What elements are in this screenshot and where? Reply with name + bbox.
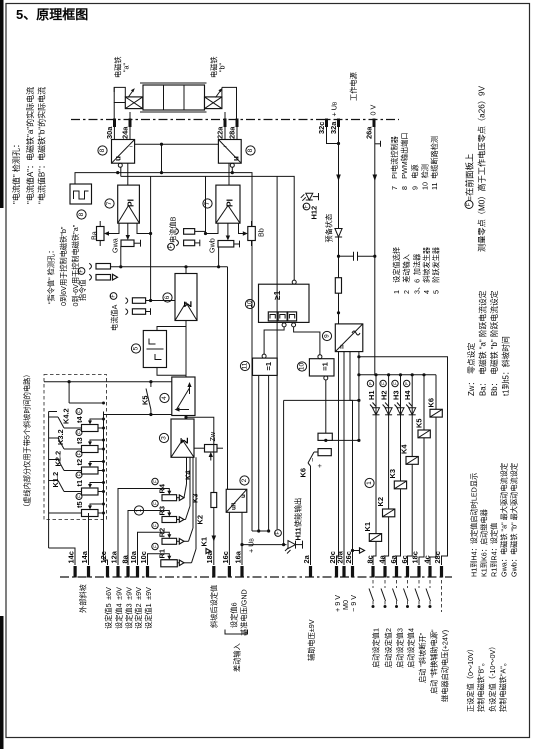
circled 7 right bbox=[203, 199, 212, 208]
external contact 4a bbox=[384, 580, 386, 588]
u/i outputs to 16c 16a bbox=[228, 512, 230, 565]
terminal 12a bbox=[116, 566, 119, 578]
valve chamber divider 2 bbox=[183, 85, 185, 110]
H11 feed wire bbox=[284, 399, 359, 401]
LED H1 column bbox=[373, 375, 376, 565]
svg-text:32a: 32a bbox=[329, 121, 338, 134]
svg-text:28c: 28c bbox=[433, 551, 442, 563]
svg-text:26a: 26a bbox=[365, 126, 374, 139]
wire box a to PI a bbox=[127, 163, 129, 185]
svg-text:11 电缆断路检测: 11 电缆断路检测 bbox=[430, 136, 439, 190]
svg-text:Zw： 零点设定: Zw： 零点设定 bbox=[466, 343, 476, 396]
relay K4 bbox=[406, 457, 418, 465]
trunk wire right column bbox=[276, 176, 278, 529]
svg-text:外部斜坡: 外部斜坡 bbox=[79, 584, 88, 613]
test point below box a bbox=[118, 163, 122, 167]
svg-text:指令值: 指令值 bbox=[78, 279, 87, 301]
switch K5 bypass bbox=[150, 382, 152, 387]
right feed from 9 bbox=[358, 352, 360, 375]
svg-text:H4: H4 bbox=[403, 390, 412, 400]
terminal 20c bbox=[335, 566, 338, 578]
svg-text:K6: K6 bbox=[299, 468, 308, 477]
terminal 28c bbox=[440, 566, 443, 578]
svg-text:22a: 22a bbox=[215, 126, 224, 139]
summing bus from switches to adder 3 bbox=[186, 457, 188, 484]
svg-text:10a: 10a bbox=[129, 550, 138, 563]
Gwb wiper arrow from PI b bbox=[227, 223, 229, 238]
svg-text:2a: 2a bbox=[302, 554, 311, 563]
svg-text:K2: K2 bbox=[196, 515, 205, 524]
wire solenoid b outer loop to 28a bbox=[222, 87, 237, 119]
svg-text:PI: PI bbox=[225, 199, 235, 207]
terminal 6c bbox=[406, 566, 409, 578]
potentiometer Gwb bbox=[218, 241, 234, 248]
relay K5 column bbox=[423, 375, 425, 430]
svg-text:K5: K5 bbox=[141, 396, 150, 405]
terminal 14c bbox=[74, 566, 77, 578]
xor box 10b bbox=[309, 359, 334, 376]
svg-text:14c: 14c bbox=[67, 551, 76, 563]
wire test point b to rail1 bbox=[231, 167, 233, 172]
jack A resistor 2 bbox=[132, 309, 145, 315]
svg-text:Bb: Bb bbox=[257, 228, 266, 237]
svg-text:启动设定值3: 启动设定值3 bbox=[396, 628, 405, 668]
svg-text:Σ: Σ bbox=[179, 437, 191, 444]
terminal 10c bbox=[146, 566, 149, 578]
switch K6 to 2a bbox=[314, 451, 318, 453]
terminal 20a bbox=[342, 566, 345, 578]
svg-text:0 V: 0 V bbox=[369, 105, 378, 116]
valve top rail line bbox=[140, 82, 207, 84]
relay K6 column bbox=[435, 375, 437, 410]
jack resistor B2 bbox=[184, 240, 195, 246]
svg-text:7: 7 bbox=[106, 201, 113, 205]
svg-text:1 设定值选择: 1 设定值选择 bbox=[392, 247, 401, 294]
svg-text:K1: K1 bbox=[200, 537, 209, 546]
switch K2.2 bbox=[64, 470, 82, 472]
terminal 14a bbox=[87, 566, 90, 578]
svg-text:启动 "斜坡断开": 启动 "斜坡断开" bbox=[418, 632, 427, 683]
svg-text:24a: 24a bbox=[120, 126, 129, 139]
wire PI-a right output bbox=[137, 223, 151, 233]
svg-text:"b": "b" bbox=[218, 62, 227, 72]
svg-text:9 电源: 9 电源 bbox=[411, 164, 420, 190]
svg-text:Zw: Zw bbox=[208, 431, 217, 441]
square wave generator box (8) bbox=[70, 184, 92, 204]
terminal 28a bbox=[236, 119, 239, 128]
svg-text:u/i: u/i bbox=[231, 503, 238, 510]
switch K4.2 bbox=[64, 427, 82, 429]
external dashed line 28c bbox=[441, 580, 443, 612]
svg-text:14a: 14a bbox=[80, 550, 89, 563]
svg-text:− 9 V: − 9 V bbox=[349, 595, 358, 612]
svg-text:K2.2: K2.2 bbox=[54, 451, 63, 467]
front panel note bbox=[465, 201, 473, 209]
svg-text:H12: H12 bbox=[310, 206, 319, 220]
switch K1 bbox=[184, 562, 192, 564]
terminal 24a bbox=[129, 119, 132, 128]
card edge dash-dot line bottom bbox=[60, 576, 452, 578]
svg-text:继电器启动电压(+24V): 继电器启动电压(+24V) bbox=[441, 630, 450, 702]
svg-text:F: F bbox=[77, 473, 82, 476]
LED H4 column bbox=[408, 375, 413, 565]
svg-text:"电流值" 检测孔：: "电流值" 检测孔： bbox=[11, 140, 21, 204]
potentiometer t1 bbox=[82, 488, 99, 495]
external contact 8c bbox=[372, 580, 374, 588]
svg-text:8 PWM输出端口: 8 PWM输出端口 bbox=[400, 132, 409, 190]
svg-text:5: 5 bbox=[133, 346, 140, 350]
Gwa wiper arrow from PI a bbox=[127, 223, 129, 238]
svg-text:辅助电压±9V: 辅助电压±9V bbox=[307, 619, 316, 661]
svg-text:u: u bbox=[232, 156, 241, 161]
relay K2 bbox=[383, 509, 395, 517]
svg-text:4: 4 bbox=[161, 396, 168, 400]
wire 30a to box a bbox=[113, 127, 115, 140]
external contact 18c bbox=[418, 580, 420, 588]
svg-text:"电流值A"：电磁铁"a"的实际电流: "电流值A"：电磁铁"a"的实际电流 bbox=[25, 87, 35, 204]
jack A resistor 1 bbox=[132, 298, 145, 304]
ramp time lower wire bbox=[104, 414, 172, 416]
svg-text:工作电源: 工作电源 bbox=[349, 72, 358, 101]
left return bus bbox=[48, 412, 50, 549]
potentiometer Zw bbox=[205, 445, 218, 453]
circled 8 generator bbox=[77, 210, 86, 219]
wire bubble chain 10 to 11 bbox=[264, 327, 284, 354]
wire PI-b right output to Bb bbox=[239, 223, 242, 233]
svg-text:K4.2: K4.2 bbox=[62, 408, 71, 424]
svg-text:6c: 6c bbox=[400, 555, 409, 563]
svg-text:控制电磁铁"B"。: 控制电磁铁"B"。 bbox=[477, 659, 486, 712]
test point below box b bbox=[230, 163, 234, 167]
u/i converter 2 bbox=[226, 489, 247, 512]
wire 32c join 32a bbox=[327, 127, 339, 144]
svg-text:"a": "a" bbox=[122, 62, 131, 72]
svg-text:"指令值" 检测孔：: "指令值" 检测孔： bbox=[47, 247, 56, 304]
svg-text:测量零点（M0）高于工作电压零点（a26）9V: 测量零点（M0）高于工作电压零点（a26）9V bbox=[477, 85, 487, 252]
open arrow into K1 line bbox=[206, 549, 211, 554]
svg-text:设定值1 ±9V: 设定值1 ±9V bbox=[144, 587, 153, 629]
svg-text:H2: H2 bbox=[380, 391, 389, 400]
potentiometer t5 bbox=[82, 510, 99, 517]
svg-text:t5: t5 bbox=[75, 501, 84, 508]
svg-text:2: 2 bbox=[241, 478, 248, 482]
svg-text:设定值6: 设定值6 bbox=[230, 602, 239, 628]
svg-text:8: 8 bbox=[78, 212, 85, 216]
svg-text:u: u bbox=[240, 494, 247, 498]
svg-text:i: i bbox=[129, 146, 134, 147]
svg-text:t4: t4 bbox=[75, 416, 84, 423]
solenoid b box bbox=[205, 97, 222, 109]
svg-text:9: 9 bbox=[324, 334, 331, 338]
potentiometer Gwa bbox=[121, 240, 134, 247]
svg-text:差动输入: 差动输入 bbox=[233, 643, 242, 672]
solenoid a arrow bbox=[128, 90, 134, 98]
svg-text:26c: 26c bbox=[344, 551, 353, 563]
resistor on supply line bbox=[335, 278, 341, 294]
wire 22a to box b bbox=[224, 127, 226, 140]
capacitor bbox=[339, 255, 354, 257]
terminal 6a bbox=[395, 566, 398, 578]
xor box 11 bbox=[253, 358, 278, 375]
potentiometer t2 bbox=[82, 467, 99, 474]
terminal 22a bbox=[224, 119, 227, 128]
svg-text:3: 3 bbox=[161, 436, 168, 440]
terminal 18c bbox=[417, 566, 420, 578]
svg-text:8: 8 bbox=[99, 148, 106, 152]
wire bubble chain 10 to 10b bbox=[294, 327, 320, 355]
circled 7 left bbox=[105, 199, 114, 208]
ramp pot bus bbox=[103, 412, 105, 561]
output of 10b down bbox=[325, 380, 327, 440]
svg-text:F: F bbox=[77, 452, 82, 455]
terminal 4a bbox=[383, 566, 386, 578]
setpoint pot R1 bbox=[162, 560, 177, 567]
trunk corner to aux rail bbox=[252, 530, 269, 532]
svg-text:6a: 6a bbox=[389, 554, 398, 563]
dashed enclosure for ramp time circuit bbox=[44, 375, 107, 520]
wire from ramp input into box bbox=[68, 382, 70, 403]
svg-text:F: F bbox=[77, 431, 82, 434]
svg-text:基准电压/GND: 基准电压/GND bbox=[240, 589, 249, 636]
svg-text:启动设定值4: 启动设定值4 bbox=[407, 628, 416, 668]
svg-text:Ba： 电磁铁 "a" 阶跃电流设定: Ba： 电磁铁 "a" 阶跃电流设定 bbox=[478, 290, 488, 396]
svg-text:K2: K2 bbox=[376, 497, 385, 506]
svg-text:8c: 8c bbox=[365, 555, 374, 563]
LED H2 column bbox=[385, 375, 389, 565]
svg-text:11: 11 bbox=[242, 362, 249, 369]
potentiometer Bb bbox=[248, 227, 256, 241]
svg-text:F: F bbox=[79, 269, 85, 272]
svg-text:Gwa: Gwa bbox=[111, 238, 120, 253]
ramp time input wire bbox=[44, 381, 172, 383]
svg-text:t1: t1 bbox=[75, 480, 84, 487]
svg-text:32c: 32c bbox=[317, 122, 326, 134]
terminal 30a bbox=[113, 119, 116, 128]
svg-text:4 斜坡发生器: 4 斜坡发生器 bbox=[422, 247, 431, 294]
switch K3.2 bbox=[64, 448, 82, 450]
wire PI-a left output to Ba bbox=[111, 223, 119, 233]
external contact 4c bbox=[429, 580, 431, 588]
svg-text:F: F bbox=[368, 382, 373, 385]
trunk wire from rail2 down to command line bbox=[150, 176, 152, 300]
svg-text:u: u bbox=[114, 156, 123, 161]
svg-text:设定值3 ±9V: 设定值3 ±9V bbox=[125, 587, 134, 629]
valve chamber divider 1 bbox=[163, 85, 165, 110]
sub window 2 bbox=[278, 312, 287, 321]
svg-text:1: 1 bbox=[366, 481, 373, 485]
node rail1/PI-a column bbox=[116, 171, 119, 174]
LED H12 bbox=[306, 193, 313, 200]
circled 1 right bbox=[365, 478, 374, 487]
circled 8 left bbox=[98, 146, 107, 155]
top wire to 28c column bbox=[359, 357, 448, 565]
svg-text:18c: 18c bbox=[410, 551, 419, 563]
PI controller box a (7) bbox=[118, 185, 140, 223]
bracket differential input bbox=[225, 630, 248, 635]
circled 8 right bbox=[246, 146, 255, 155]
enable node and open arrow at 26c bbox=[351, 549, 354, 552]
LED supply rail bbox=[359, 374, 436, 376]
outputs of 11 down bbox=[258, 375, 260, 531]
svg-text:18a: 18a bbox=[205, 550, 214, 563]
terminal 2a bbox=[309, 566, 312, 578]
svg-text:H11使能输出: H11使能输出 bbox=[294, 498, 303, 541]
node on linking wire bbox=[160, 143, 163, 146]
Gwb end stop bbox=[234, 243, 240, 245]
terminal 32c bbox=[325, 119, 328, 128]
wire step gen output bbox=[157, 368, 186, 376]
outputs of 9 to aux terminals bbox=[337, 352, 339, 565]
svg-text:K1到K6：启动继电器: K1到K6：启动继电器 bbox=[480, 509, 489, 577]
svg-text:0到6V用于控制电磁铁"b": 0到6V用于控制电磁铁"b" bbox=[59, 226, 68, 306]
svg-text:16c: 16c bbox=[221, 551, 230, 563]
svg-text:12c: 12c bbox=[99, 551, 108, 563]
svg-text:−: − bbox=[308, 458, 317, 462]
terminal 26c bbox=[351, 566, 354, 578]
command value test jacks bbox=[78, 268, 85, 275]
svg-text:F: F bbox=[168, 245, 174, 248]
svg-text:F: F bbox=[393, 382, 398, 385]
svg-text:F: F bbox=[153, 545, 158, 548]
jack A ground stop bbox=[146, 311, 151, 313]
wire 24a to box a bbox=[129, 127, 131, 140]
svg-text:F: F bbox=[304, 205, 310, 208]
wire jack B row1 bbox=[195, 230, 206, 232]
sub window 1 bbox=[268, 312, 277, 321]
signal rail 1 bbox=[75, 173, 252, 531]
ramp generator 4 bbox=[172, 377, 195, 416]
jack B ground stop bbox=[195, 242, 200, 244]
svg-text:2 差动输入: 2 差动输入 bbox=[402, 254, 411, 294]
svg-text:t2: t2 bbox=[75, 459, 84, 466]
branch to step generator 5 bbox=[157, 327, 186, 331]
svg-text:4c: 4c bbox=[422, 555, 431, 563]
bubbles below 10 bbox=[282, 323, 286, 327]
terminal 32a bbox=[337, 119, 340, 128]
svg-text:+: + bbox=[315, 464, 324, 468]
wire ramp to adder 3 bbox=[185, 416, 187, 420]
svg-text:Gwb: Gwb bbox=[208, 238, 217, 253]
svg-text:10c: 10c bbox=[139, 551, 148, 563]
wire test point a to rail2 bbox=[120, 167, 122, 176]
relay K3 bbox=[394, 481, 406, 489]
Gwa end stop bbox=[134, 242, 141, 244]
svg-text:8: 8 bbox=[247, 148, 254, 152]
svg-text:Ba: Ba bbox=[90, 231, 99, 240]
svg-text:t3: t3 bbox=[75, 437, 84, 444]
exit wires to 14c 14a bbox=[49, 548, 75, 565]
svg-text:F: F bbox=[381, 382, 386, 385]
svg-text:H3: H3 bbox=[392, 391, 401, 400]
svg-text:电流值B: 电流值B bbox=[169, 216, 178, 243]
svg-text:F: F bbox=[275, 531, 281, 534]
H12 termination bar bbox=[313, 196, 319, 198]
svg-text:电流值A: 电流值A bbox=[110, 304, 119, 331]
wire test-bus drop bbox=[161, 144, 163, 172]
svg-text:斜坡后设定值: 斜坡后设定值 bbox=[210, 585, 219, 628]
svg-text:（虚线内部分仅用于带5个斜坡时间的电路）: （虚线内部分仅用于带5个斜坡时间的电路） bbox=[23, 370, 32, 511]
wire box b to PI b bbox=[228, 163, 230, 185]
svg-text:10: 10 bbox=[299, 363, 306, 371]
svg-text:K5: K5 bbox=[415, 419, 424, 428]
svg-text:H1: H1 bbox=[367, 391, 376, 400]
detector logic box 10 bbox=[259, 284, 310, 322]
switch K4 bbox=[184, 484, 187, 498]
terminal 4c bbox=[428, 566, 431, 578]
ramped output to 18a bbox=[186, 417, 214, 565]
svg-text:F: F bbox=[77, 495, 82, 498]
command jack arrow bbox=[113, 274, 118, 280]
svg-text:Gwa：电磁铁 "a" 最大驱动电流设定: Gwa：电磁铁 "a" 最大驱动电流设定 bbox=[500, 463, 509, 577]
svg-text:Gwb：电磁铁 "b" 最大驱动电流设定: Gwb：电磁铁 "b" 最大驱动电流设定 bbox=[510, 463, 519, 577]
svg-text:10: 10 bbox=[247, 300, 254, 308]
adder 3 bbox=[171, 419, 194, 457]
svg-text:设定值2 ±9V: 设定值2 ±9V bbox=[134, 587, 143, 629]
scan edge strip bottom-left bbox=[0, 616, 4, 749]
input pot R1 on terminal line bbox=[161, 560, 178, 567]
valve bottom rail line bbox=[140, 111, 207, 113]
svg-text:i: i bbox=[223, 146, 228, 147]
svg-text:30a: 30a bbox=[105, 126, 114, 139]
switch K1.2 bbox=[64, 491, 82, 493]
LED H11 output bbox=[242, 544, 287, 546]
step function generator 5 bbox=[143, 331, 166, 368]
sub window 3 bbox=[288, 312, 297, 321]
wire command line down to u/i bbox=[227, 267, 229, 490]
setpoint pot R2 bbox=[162, 538, 177, 544]
svg-text:F: F bbox=[404, 382, 409, 385]
svg-text:F: F bbox=[153, 480, 158, 483]
svg-text:1: 1 bbox=[136, 508, 143, 512]
solenoid a box bbox=[125, 97, 142, 109]
inverter bubble on top of 10 bbox=[292, 280, 296, 284]
valve body bbox=[143, 85, 205, 110]
svg-text:控制电磁铁"A"。: 控制电磁铁"A"。 bbox=[499, 659, 508, 712]
terminal 8c bbox=[371, 566, 374, 578]
26a stub bar bbox=[375, 143, 381, 145]
svg-text:4a: 4a bbox=[377, 554, 386, 563]
svg-text:K4: K4 bbox=[400, 444, 409, 454]
node PI-a output on trunk bbox=[149, 232, 152, 235]
svg-text:F: F bbox=[77, 410, 82, 413]
scan edge strip top-left bbox=[0, 0, 4, 208]
adder 6 bbox=[175, 274, 197, 321]
svg-text:5 阶跃发生器: 5 阶跃发生器 bbox=[432, 247, 441, 294]
svg-text:=1: =1 bbox=[321, 362, 330, 371]
svg-text:K1.2: K1.2 bbox=[51, 472, 60, 488]
setpoint pot R4 bbox=[162, 495, 177, 501]
wire 26a line down to LED rail bbox=[374, 256, 376, 375]
terminal 16c bbox=[228, 566, 231, 578]
potentiometer Ba bbox=[97, 227, 105, 241]
potentiometer t3 bbox=[82, 446, 99, 453]
terminal 26a bbox=[373, 119, 376, 128]
svg-text:3、6 加法器: 3、6 加法器 bbox=[413, 254, 422, 294]
wire 28a to box b bbox=[236, 127, 238, 140]
svg-text:F: F bbox=[153, 502, 158, 505]
external contact 6a bbox=[396, 580, 398, 588]
u/i detector box b (8) bbox=[218, 140, 241, 164]
node supply/cap left bbox=[337, 255, 340, 258]
signal rail 2 bbox=[121, 176, 294, 280]
svg-text:6: 6 bbox=[164, 295, 171, 299]
switch K3 bbox=[184, 519, 186, 521]
svg-text:K3: K3 bbox=[388, 469, 397, 478]
Bb wiper arrow bbox=[241, 233, 246, 235]
LED H3 column bbox=[397, 375, 401, 565]
external contact 6c bbox=[407, 580, 409, 588]
terminal 10a bbox=[136, 566, 139, 578]
